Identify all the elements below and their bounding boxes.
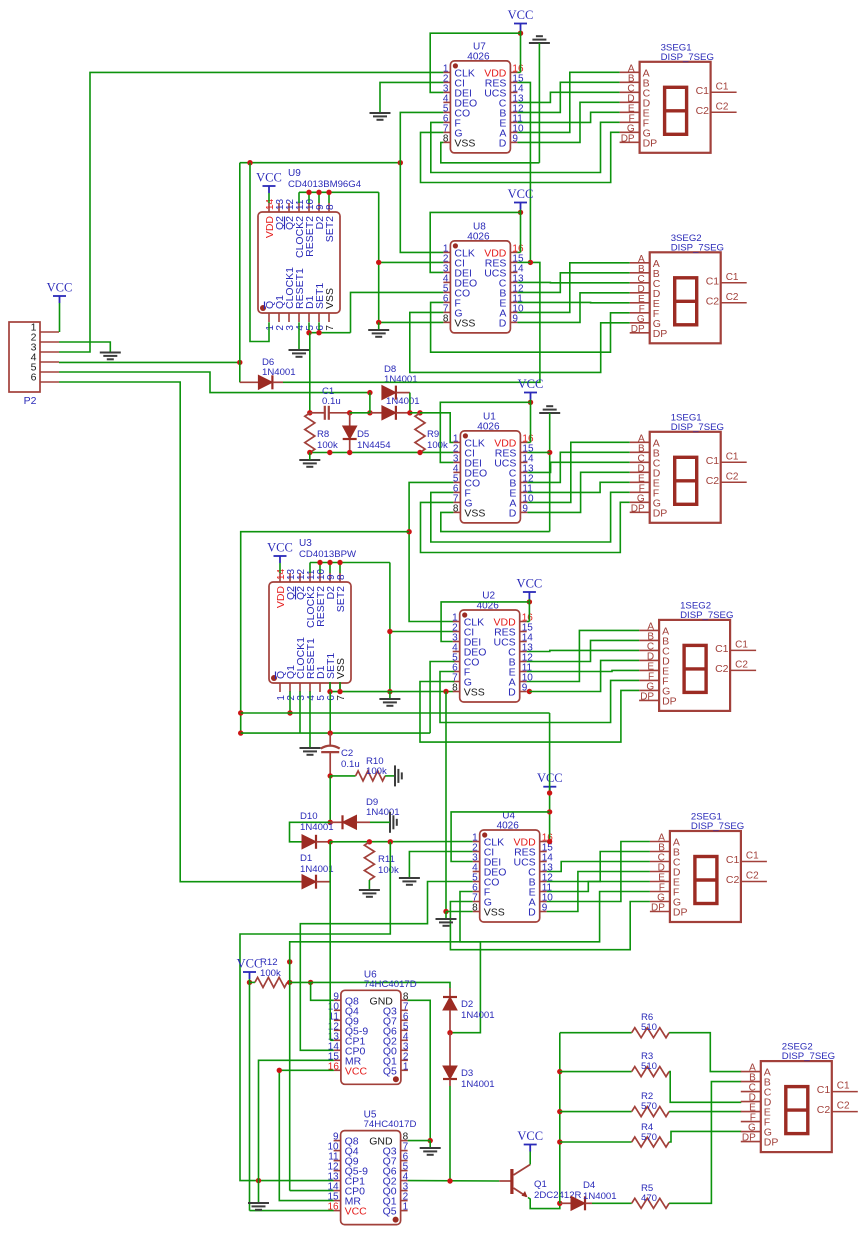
diode D8 xyxy=(382,386,410,400)
IC U1 4026 counter xyxy=(453,411,534,523)
node U2 VSS junction xyxy=(443,689,448,694)
node R12 right xyxy=(287,980,292,985)
power VCC above U7 xyxy=(508,8,534,31)
wire VCC to U8 VDD xyxy=(517,210,520,253)
svg-text:D: D xyxy=(528,907,536,919)
label D7 xyxy=(386,396,420,407)
svg-text:6: 6 xyxy=(31,372,37,384)
node U4 DEI junction xyxy=(547,809,552,814)
wire U9 Qbar loop xyxy=(250,163,269,342)
wire R5 to 2SEG2 B xyxy=(669,1082,741,1204)
wire R3 to 2SEG2 D xyxy=(669,1072,741,1103)
wire P2.4 clock input xyxy=(59,361,240,363)
IC U3 CD4013 flip-flop xyxy=(269,538,357,701)
node C2 bottom xyxy=(328,773,333,778)
node C1 left xyxy=(307,410,312,415)
node U6 VCC junction xyxy=(277,1068,282,1073)
svg-text:DP: DP xyxy=(673,907,688,919)
node U3 pin8 xyxy=(337,560,342,565)
wire clock row to U4 CLK xyxy=(330,841,473,843)
svg-text:DISP_7SEG: DISP_7SEG xyxy=(671,422,724,433)
wire U9 D1 SET1 bus xyxy=(309,322,351,332)
power VCC above U4 xyxy=(537,771,563,794)
wire C2 to R10 xyxy=(330,775,355,777)
svg-text:C1: C1 xyxy=(726,272,739,283)
wire D1 to D10 node xyxy=(329,842,331,882)
wire U5 GND stub xyxy=(408,1140,431,1142)
label D3 xyxy=(461,1068,495,1090)
svg-text:Q1: Q1 xyxy=(534,1179,547,1190)
node U5 GND junction xyxy=(428,1138,433,1143)
wire P2.2 to ground xyxy=(59,342,110,353)
svg-text:4026: 4026 xyxy=(467,51,490,62)
svg-text:DISP_7SEG: DISP_7SEG xyxy=(691,821,744,832)
svg-text:D10: D10 xyxy=(300,811,318,822)
IC U9 CD4013 flip-flop xyxy=(258,168,362,331)
node U9 SET1 xyxy=(316,330,321,335)
svg-text:7: 7 xyxy=(325,325,336,331)
wire U4 D to 2SEG1 D xyxy=(547,872,650,912)
wire U9 bus to U8 CI and VSS xyxy=(379,192,444,322)
diode D5 xyxy=(343,413,357,453)
node U1 CO junction xyxy=(406,529,411,534)
node D2 D3 mid xyxy=(447,1030,452,1035)
svg-text:7: 7 xyxy=(336,695,347,701)
wire row 961 to D2/D3 mid xyxy=(290,942,481,1033)
svg-text:C1: C1 xyxy=(716,81,729,92)
svg-text:C1: C1 xyxy=(706,455,720,467)
wire U8 B to 3SEG2 B xyxy=(517,273,629,293)
node U9 D1 xyxy=(306,330,311,335)
node U2 CI junction xyxy=(387,629,392,634)
label D4 xyxy=(583,1180,617,1202)
node D5 bottom xyxy=(347,450,352,455)
svg-text:8: 8 xyxy=(325,204,336,210)
svg-text:1N4001: 1N4001 xyxy=(386,396,420,407)
node U8 RES junction xyxy=(528,260,533,265)
node Q2 junction xyxy=(447,1178,452,1183)
wire U2 F to 1SEG2 F xyxy=(440,672,639,723)
svg-text:C1: C1 xyxy=(726,451,739,462)
wire R4 to 2SEG2 G xyxy=(669,1131,741,1142)
svg-text:C1: C1 xyxy=(696,85,710,97)
svg-text:C2: C2 xyxy=(726,874,740,886)
display 2SEG2 xyxy=(741,1042,858,1153)
node U9 pin10 xyxy=(306,190,311,195)
wire U3 CLOCK1 down xyxy=(299,691,301,733)
node D8 left xyxy=(367,390,372,395)
svg-text:SET2: SET2 xyxy=(335,586,347,612)
wire VCC loop to U1 DEI xyxy=(440,402,530,462)
svg-text:4026: 4026 xyxy=(497,821,520,832)
wire U2 D to 1SEG2 D xyxy=(529,660,639,691)
svg-text:VSS: VSS xyxy=(335,658,347,679)
wire U7 VSS loop xyxy=(441,142,540,162)
wire U1 CO to U2 CLK xyxy=(409,482,453,621)
node U2 D junction xyxy=(527,689,532,694)
wire U3 RESET1 to ground xyxy=(309,691,311,748)
svg-text:P2: P2 xyxy=(24,395,37,407)
svg-text:D: D xyxy=(499,137,507,149)
svg-text:100k: 100k xyxy=(260,968,281,979)
node U3 VSS xyxy=(337,689,342,694)
svg-text:C1: C1 xyxy=(837,1081,850,1092)
node R9 top xyxy=(417,410,422,415)
wire U6 Q8 xyxy=(311,982,334,1000)
node R12 row2 xyxy=(287,959,292,964)
svg-text:Q5: Q5 xyxy=(383,1065,397,1077)
node U2 VDD junction xyxy=(527,599,532,604)
svg-text:C2: C2 xyxy=(696,105,710,117)
wire U8 RES stub xyxy=(517,261,530,263)
wire U7 D to 3SEG1 D xyxy=(517,102,619,142)
wire D6 to U8 RES xyxy=(283,262,540,382)
label Q1 xyxy=(534,1179,582,1201)
wire VCC loop to U4 DEI xyxy=(451,812,549,862)
wire D10 anode loop xyxy=(290,822,331,842)
wire U3 Q1 to 713 row xyxy=(289,691,291,713)
wire U8 F to 3SEG2 F xyxy=(431,302,630,352)
wire U7 C to 3SEG1 C xyxy=(517,92,619,102)
svg-text:D: D xyxy=(509,507,517,519)
node D9 anode xyxy=(328,820,333,825)
svg-text:DP: DP xyxy=(621,133,635,144)
wire U1 F to 1SEG1 F xyxy=(431,492,630,542)
node U8 VSS junction xyxy=(376,320,381,325)
svg-text:C2: C2 xyxy=(716,101,729,112)
wire U1 C to 1SEG1 C xyxy=(527,462,629,472)
wire U1 B to 1SEG1 B xyxy=(527,452,629,482)
wire D9 to ground xyxy=(370,821,390,823)
resistor R11 xyxy=(364,842,374,880)
label D2 xyxy=(461,999,495,1021)
svg-text:570: 570 xyxy=(641,1132,657,1143)
svg-text:VSS: VSS xyxy=(324,288,336,309)
diode D4 xyxy=(560,1196,592,1210)
node U3 ground junction xyxy=(387,689,392,694)
svg-text:VCC: VCC xyxy=(345,1065,368,1077)
svg-text:DP: DP xyxy=(653,328,668,340)
node R11 top xyxy=(367,839,372,844)
IC U6 74HC4017 counter xyxy=(328,969,417,1084)
svg-text:C1: C1 xyxy=(726,854,740,866)
wire R12 link xyxy=(289,962,291,983)
wire U8 C to 3SEG2 C xyxy=(517,281,629,283)
wire to U7 CO xyxy=(400,112,443,162)
label D1 xyxy=(300,853,334,875)
wire GND stem xyxy=(429,1141,431,1148)
svg-text:C2: C2 xyxy=(817,1104,831,1116)
svg-text:D2: D2 xyxy=(461,999,473,1010)
svg-text:D: D xyxy=(508,687,516,699)
wire U9 clock2 bus xyxy=(299,192,379,203)
svg-text:1N4001: 1N4001 xyxy=(461,1010,495,1021)
wire U8 A to 3SEG2 A xyxy=(517,263,629,313)
svg-text:4026: 4026 xyxy=(467,231,490,242)
wire row 162 to U7.CO / U8.CLK xyxy=(240,162,400,164)
label D8 xyxy=(384,364,418,385)
svg-text:74HC4017D: 74HC4017D xyxy=(364,979,417,990)
wire R11 to ground xyxy=(368,880,370,890)
node C2 top xyxy=(328,730,333,735)
svg-text:100k: 100k xyxy=(378,865,399,876)
wire C1 row xyxy=(350,412,370,414)
wire C2 chain down xyxy=(329,776,331,822)
node U9 pin9 xyxy=(316,190,321,195)
svg-text:C1: C1 xyxy=(706,275,720,287)
svg-text:U3: U3 xyxy=(299,538,312,549)
svg-text:100k: 100k xyxy=(427,440,448,451)
wire D3 to Q2 row xyxy=(449,1086,451,1181)
wire U4 E to 2SEG1 E xyxy=(547,882,650,892)
node U9 Qbar tap xyxy=(247,160,252,165)
svg-text:D5: D5 xyxy=(357,429,369,440)
svg-text:VCC: VCC xyxy=(508,187,534,201)
svg-text:CD4013BPW: CD4013BPW xyxy=(299,549,357,560)
svg-text:C2: C2 xyxy=(706,295,720,307)
node Q8 tap xyxy=(308,980,313,985)
svg-text:VCC: VCC xyxy=(517,577,543,591)
label R6 xyxy=(641,1012,657,1033)
power VCC at Q1 xyxy=(517,1129,543,1152)
power VCC at U3 xyxy=(267,541,293,564)
label R2 xyxy=(641,1091,657,1112)
wire D8 to C1 row xyxy=(369,393,371,413)
wire U1 E to 1SEG1 E xyxy=(527,482,629,492)
svg-text:C2: C2 xyxy=(726,471,739,482)
wire U2 E to 1SEG2 E xyxy=(527,670,639,671)
wire to stage2 ground xyxy=(378,322,380,330)
svg-text:CD4013BM96G4: CD4013BM96G4 xyxy=(288,179,362,190)
node CO/CLK junction xyxy=(398,160,403,165)
svg-text:0.1u: 0.1u xyxy=(341,759,360,770)
diode D3 xyxy=(443,1033,457,1086)
svg-text:100k: 100k xyxy=(317,440,338,451)
svg-text:1N4454: 1N4454 xyxy=(357,440,391,451)
wire VCC loop to U2 DEI xyxy=(441,602,529,642)
node P2.4 junction xyxy=(237,360,242,365)
svg-text:VCC: VCC xyxy=(518,377,544,391)
svg-text:VSS: VSS xyxy=(454,137,475,149)
node U8 CI junction xyxy=(376,260,381,265)
svg-text:8: 8 xyxy=(453,503,459,514)
svg-text:U9: U9 xyxy=(288,168,301,179)
ground at R11 xyxy=(359,890,380,897)
resistor R6 xyxy=(560,1028,669,1038)
svg-text:D4: D4 xyxy=(583,1180,596,1191)
diode D2 xyxy=(443,988,457,1033)
svg-text:570: 570 xyxy=(641,1101,657,1112)
IC U5 74HC4017 counter xyxy=(327,1110,416,1225)
ground at U4 CI xyxy=(399,878,420,885)
svg-text:8: 8 xyxy=(443,313,449,324)
wire D10 node to U5 CP1 xyxy=(240,842,390,1181)
svg-text:1N4001: 1N4001 xyxy=(583,1191,617,1202)
IC U4 4026 counter xyxy=(472,811,553,923)
node U5 CP1 mr junction xyxy=(256,1178,261,1183)
wire C1 node to U1 CLK xyxy=(420,413,453,443)
wire U1 VSS loop xyxy=(441,512,550,531)
wire U5 Q2 to Q1 base xyxy=(408,1180,500,1182)
svg-text:DISP_7SEG: DISP_7SEG xyxy=(661,52,714,63)
wire P2.6 to D1 xyxy=(59,382,301,882)
svg-text:74HC4017D: 74HC4017D xyxy=(364,1119,417,1130)
ground below U3 xyxy=(379,699,400,706)
wire to U8 CLK xyxy=(400,163,443,253)
svg-text:VCC: VCC xyxy=(345,1206,368,1218)
svg-text:C1: C1 xyxy=(735,639,748,650)
svg-text:0.1u: 0.1u xyxy=(322,396,341,407)
wire D8 out xyxy=(409,393,411,413)
svg-text:DP: DP xyxy=(742,1133,756,1144)
svg-text:DP: DP xyxy=(662,695,677,707)
wire VCC to U2 VDD xyxy=(527,599,530,622)
label R11 xyxy=(378,854,399,876)
svg-text:1N4001: 1N4001 xyxy=(300,822,334,833)
svg-text:DP: DP xyxy=(631,324,645,335)
wire U9 D1 to C1 node xyxy=(309,333,311,413)
svg-text:C2: C2 xyxy=(726,292,739,303)
node rail R4 xyxy=(557,1139,562,1144)
wire bus to U8 CO xyxy=(351,292,444,332)
wire U1 D to 1SEG1 D xyxy=(527,472,629,512)
svg-text:VCC: VCC xyxy=(237,957,263,971)
wire U3 SET1 stub down xyxy=(330,682,340,692)
ground at R10 xyxy=(395,765,402,786)
IC U7 4026 counter xyxy=(443,41,524,152)
ground at U9 RESET1 xyxy=(289,350,310,357)
node U4 VSS junction xyxy=(443,909,448,914)
svg-text:8: 8 xyxy=(472,903,478,914)
svg-text:VCC: VCC xyxy=(267,541,293,555)
wire U4 B to 2SEG1 B xyxy=(547,852,650,882)
resistor R4 xyxy=(560,1137,669,1147)
wire VCC loop to U7 DEI xyxy=(430,33,520,92)
svg-text:Q5: Q5 xyxy=(383,1206,397,1218)
wire ground rail stage1 xyxy=(538,43,540,163)
capacitor C1 xyxy=(310,406,350,420)
svg-text:470: 470 xyxy=(641,1193,657,1204)
node U1 RES junction xyxy=(547,450,552,455)
wire U7 A to 3SEG1 A xyxy=(517,72,619,132)
wire D4 to R5 xyxy=(592,1202,632,1204)
ground at U4 VSS xyxy=(436,919,457,926)
node gnd rail xyxy=(327,450,332,455)
diode D6 xyxy=(240,362,283,389)
svg-text:100k: 100k xyxy=(366,766,387,777)
svg-text:C2: C2 xyxy=(715,663,729,675)
svg-text:510: 510 xyxy=(641,1022,657,1033)
svg-text:DP: DP xyxy=(640,691,654,702)
power VCC above U1 xyxy=(518,377,544,400)
wire 713 row down to U4 VCC xyxy=(547,713,550,842)
diode D1 xyxy=(301,875,331,889)
svg-text:1N4001: 1N4001 xyxy=(300,864,334,875)
svg-text:DISP_7SEG: DISP_7SEG xyxy=(671,242,724,253)
label R4 xyxy=(641,1122,657,1143)
node U7 VDD junction xyxy=(518,31,523,36)
label R8 xyxy=(317,429,338,451)
wire VCC loop to U8 DEI xyxy=(430,212,520,272)
wire U1 G to 1SEG1 G xyxy=(421,502,630,552)
wire U2 CO to C2 row xyxy=(430,662,454,734)
resistor R10 xyxy=(356,771,386,781)
wire U8 E to 3SEG2 E xyxy=(517,301,629,303)
diode D9 xyxy=(330,815,370,829)
wire P2.1 to VCC xyxy=(59,303,61,332)
wire VCC to U1 VDD xyxy=(527,400,530,443)
display 3SEG2 xyxy=(630,233,747,343)
display 3SEG1 xyxy=(620,42,737,153)
node U3 pin10 xyxy=(317,560,322,565)
diode D7 xyxy=(370,406,410,420)
svg-text:C2: C2 xyxy=(735,659,748,670)
node C2 feeder junction xyxy=(238,730,243,735)
ground at D9 xyxy=(390,812,397,833)
resistor R9 xyxy=(415,413,425,452)
wire U7 G to 3SEG1 G xyxy=(421,132,620,182)
svg-text:DISP_7SEG: DISP_7SEG xyxy=(680,610,733,621)
power VCC at U9 xyxy=(256,171,282,194)
svg-text:VSS: VSS xyxy=(484,907,505,919)
wire ground rail under R8 xyxy=(310,451,454,453)
connector P2 xyxy=(9,322,59,408)
node U1 VDD junction xyxy=(528,400,533,405)
wire R2 to 2SEG2 E xyxy=(669,1111,741,1113)
wire U2 VSS to U4 VSS rail xyxy=(445,692,447,912)
ground at P2 pin 2 xyxy=(100,353,121,360)
wire Q1 emitter to D4 xyxy=(528,1198,560,1209)
label D5 xyxy=(357,429,391,451)
node D10 cathode xyxy=(328,839,333,844)
svg-text:DP: DP xyxy=(764,1137,779,1149)
node CP feed xyxy=(388,839,393,844)
label D6 xyxy=(262,357,296,378)
wire to C2 top xyxy=(241,732,430,734)
svg-text:8: 8 xyxy=(336,574,347,580)
svg-text:DP: DP xyxy=(651,903,665,914)
wire U6 CP1 feed xyxy=(330,842,334,1041)
wire U3 clock2 bus xyxy=(310,563,390,574)
wire U3 SET1 to C2 xyxy=(329,692,331,734)
wire to R9 xyxy=(410,412,420,414)
wire R8 gnd stem xyxy=(309,453,311,461)
node U3 Q1 junction xyxy=(287,710,292,715)
ground at U7 CI xyxy=(370,113,391,120)
svg-text:C1: C1 xyxy=(746,851,759,862)
transistor Q1 xyxy=(499,1165,530,1198)
node R8 bottom xyxy=(307,450,312,455)
label C2 xyxy=(341,748,360,770)
wire U4 A to 2SEG1 A xyxy=(547,842,650,902)
svg-text:DP: DP xyxy=(631,503,645,514)
svg-text:DP: DP xyxy=(643,137,658,149)
wire ground rail stage3 xyxy=(549,413,551,532)
wire U4 G to 2SEG1 G xyxy=(450,902,650,950)
wire R12 to U5 CP0 xyxy=(290,982,334,1190)
resistor R12 xyxy=(250,977,290,987)
svg-text:C1: C1 xyxy=(715,643,729,655)
wire U4 CI to ground xyxy=(409,852,472,879)
wire U6 MR to U5 CP1 row xyxy=(259,1060,334,1203)
wire U2 C to 1SEG2 C xyxy=(527,650,639,651)
svg-text:8: 8 xyxy=(443,133,449,144)
node rail R2 xyxy=(557,1109,562,1114)
wire R6 to 2SEG2 A xyxy=(669,1033,741,1072)
svg-text:1N4001: 1N4001 xyxy=(384,374,418,385)
svg-text:VCC: VCC xyxy=(517,1129,543,1143)
wire P2.4 riser to row 162 xyxy=(239,163,241,363)
